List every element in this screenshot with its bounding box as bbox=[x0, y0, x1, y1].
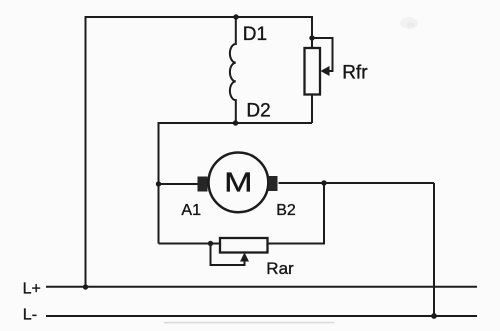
svg-text:L-: L- bbox=[23, 306, 37, 323]
wire: Rar left lead from left vertical bbox=[159, 243, 221, 245]
svg-text:Rar: Rar bbox=[266, 259, 294, 278]
wire: D2 horizontal wire to left vertical bbox=[159, 122, 313, 124]
brush: motor right brush block bbox=[269, 176, 278, 191]
motor M armature circle bbox=[209, 153, 269, 213]
wire: top supply branch from left vertical to Rfr branch bbox=[86, 16, 313, 18]
inductor: shunt field winding D1-D2 bbox=[230, 17, 236, 123]
wire: far right vertical from B2 wire down to L- line bbox=[433, 183, 435, 316]
svg-text:M: M bbox=[224, 166, 252, 197]
wire: left vertical from top wire down to L+ line bbox=[85, 16, 87, 287]
node: armature left junction dot bbox=[156, 181, 161, 186]
wire: Rar wiper loop with arrow bbox=[211, 244, 245, 266]
arrowhead of Rfr wiper bbox=[321, 66, 330, 76]
wire: Rfr bottom lead bbox=[311, 95, 313, 124]
svg-text:L+: L+ bbox=[23, 280, 41, 297]
svg-text:D1: D1 bbox=[243, 24, 267, 45]
svg-text:Rfr: Rfr bbox=[342, 62, 368, 83]
node: L+ junction dot bbox=[83, 284, 88, 289]
wire: Rfr wiper loop with arrow bbox=[312, 38, 333, 71]
node: L- junction dot bbox=[431, 313, 437, 319]
svg-text:B2: B2 bbox=[276, 202, 296, 219]
scan artifact: faint smudge top right bbox=[400, 17, 418, 29]
scan artifact: faint line bottom bbox=[164, 322, 334, 324]
node: Rfr wiper tap junction dot bbox=[309, 35, 314, 40]
node: armature right junction dot bbox=[321, 180, 326, 185]
svg-text:A1: A1 bbox=[181, 202, 201, 219]
wire: left armature vertical from D2 wire down to Rar wire bbox=[158, 122, 160, 244]
wire: motor right lead B2 to far right vertical bbox=[279, 182, 435, 184]
node: D2 junction dot bbox=[233, 120, 238, 125]
resistor Rfr body bbox=[305, 48, 321, 95]
wire: right vertical from B2 junction down to Rar wire bbox=[268, 183, 325, 244]
resistor Rar body bbox=[220, 238, 268, 253]
wire: motor left lead A1 bbox=[159, 183, 200, 185]
node: Rar wiper tap junction dot bbox=[208, 241, 213, 246]
wire: Rfr top lead bbox=[311, 16, 313, 48]
wire: L- supply line bbox=[46, 315, 477, 317]
node: D1 junction dot bbox=[233, 14, 238, 19]
svg-text:D2: D2 bbox=[246, 101, 270, 122]
arrowhead of Rar wiper bbox=[240, 253, 249, 262]
wire: L+ supply line bbox=[46, 286, 477, 288]
brush: motor left brush block bbox=[198, 177, 208, 192]
